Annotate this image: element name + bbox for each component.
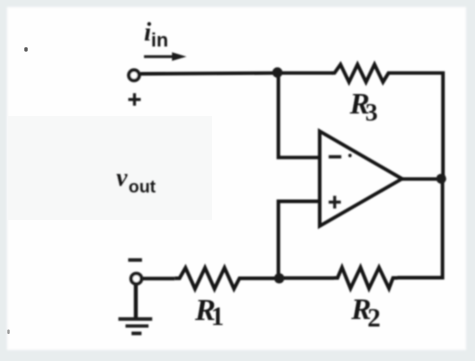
polarity + sign below top terminal (128, 93, 140, 106)
resistor R1 (175, 268, 244, 289)
wire: right side from output node down to bottom-right corner and left to R2 (398, 179, 443, 278)
node B junction dot (bottom) (274, 273, 284, 283)
resistor R2 (334, 267, 398, 288)
svg-text:in: in (151, 30, 168, 52)
wire: node B to R1 (244, 276, 279, 280)
wire: op-amp output to output node (402, 177, 442, 181)
svg-text:out: out (129, 177, 156, 197)
polarity - sign above bottom terminal (128, 258, 142, 262)
ground symbol bars (118, 319, 152, 333)
resistor R3 (332, 65, 391, 83)
terminal: + input (open circle, top-left) (129, 70, 139, 80)
op-amp inverting input - mark (329, 155, 342, 158)
op-amp stray dot artifact next to - mark (348, 154, 351, 157)
svg-text:2: 2 (367, 302, 380, 332)
node A junction dot (top) (272, 67, 282, 77)
wire: top horizontal from node A to R3 (277, 71, 333, 75)
svg-text:3: 3 (365, 99, 378, 126)
scan speck upper-left (24, 47, 27, 51)
wire: R1 to - output terminal (143, 277, 175, 281)
terminal: - output (open circle, bottom-left) (131, 274, 141, 284)
scan speck lower-left edge (7, 330, 9, 335)
faint highlight band behind v_out (8, 116, 212, 220)
wire: R2 to node B (279, 276, 334, 280)
op-amp U1 triangle (320, 131, 402, 226)
wire: top horizontal from + input terminal to node A (141, 71, 278, 75)
svg-text:v: v (116, 164, 128, 191)
output node dot (436, 174, 446, 184)
op-amp non-inverting input + mark (329, 196, 341, 209)
svg-text:1: 1 (211, 302, 224, 331)
wire: vertical from node A down to inverting input level (278, 73, 319, 158)
current arrow for i_in (144, 55, 175, 58)
ground stem wire (134, 285, 138, 319)
wire: R3 to top-right corner and down right side to output node (391, 73, 443, 179)
wire: vertical from node B up to non-inverting input level (278, 201, 319, 278)
